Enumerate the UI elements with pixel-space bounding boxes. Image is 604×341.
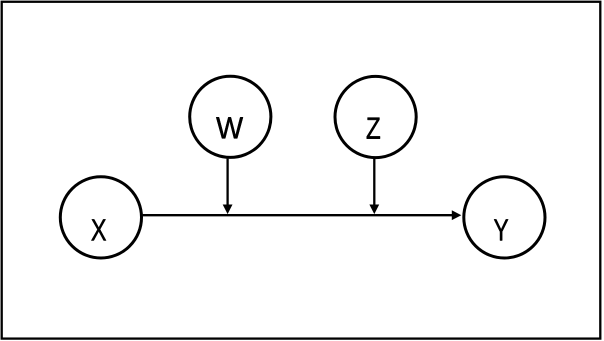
node Y label (494, 219, 508, 240)
node W label (216, 117, 243, 138)
node Y circle (464, 177, 545, 258)
wire Z down arrow line (373, 159, 375, 206)
wire X to Y horizontal line (143, 214, 454, 216)
wire W down arrow line (226, 159, 228, 206)
arrowhead X to Y (452, 211, 460, 219)
arrowhead W to line (224, 205, 232, 213)
node W circle (190, 76, 271, 157)
node Z circle (335, 76, 416, 157)
node X label (91, 219, 106, 240)
arrowhead Z to line (370, 205, 378, 213)
node Z label (367, 118, 380, 139)
node X circle (60, 177, 141, 258)
